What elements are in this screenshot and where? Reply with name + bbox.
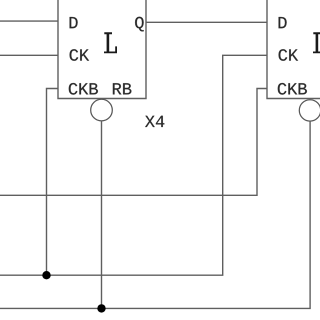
pin label CKB (U2) — [278, 83, 307, 95]
wire D input U1 — [0, 20, 58, 22]
label X4 — [145, 116, 164, 127]
wire CK input U1 — [0, 54, 58, 56]
wire clock rail and CKB input U2 — [0, 89, 267, 196]
cell symbol L (U1) — [104, 32, 117, 53]
reset bubble U1 — [91, 99, 113, 121]
wire reset rail and RB2 stem — [0, 121, 310, 309]
pin label Q (U1) — [135, 17, 144, 32]
pin label CKB (U1) — [69, 83, 98, 95]
cell symbol L (U2) — [313, 32, 320, 53]
pin label CK (U2) — [279, 49, 299, 61]
wire RB1 stem down to reset rail — [101, 121, 103, 308]
flip-flop U2 body — [267, 0, 320, 99]
wire Q1 to D2 — [146, 21, 267, 23]
reset bubble U2 — [299, 100, 320, 121]
flip-flop U1 body — [58, 0, 146, 99]
pin label RB (U1) — [113, 83, 131, 94]
junction dot CKB1 to clock rail A — [42, 271, 50, 279]
pin label D (U2) — [279, 17, 287, 28]
wire CKB input U1 down to clock rail A — [47, 89, 59, 276]
pin label D (U1) — [70, 17, 78, 28]
pin label CK (U1) — [70, 49, 90, 61]
junction dot RB1 to reset rail — [97, 304, 105, 312]
wire clock rail A and CK input U2 — [0, 55, 267, 275]
